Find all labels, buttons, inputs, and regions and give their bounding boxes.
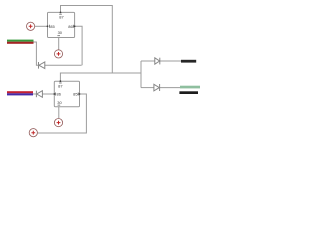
green output lead (from D4) — [180, 86, 200, 89]
svg-text:86: 86 — [57, 92, 62, 97]
pin tick 85 relay K1 — [48, 25, 50, 28]
diode D3 (points right) — [155, 58, 160, 65]
pin tick 30 relay K2 — [58, 104, 61, 106]
+12V terminal circle D (to K2 pin 85) — [29, 129, 37, 137]
pin tick 86 relay K2 — [55, 93, 57, 96]
wire 85 circle to relay K1 left pin — [35, 25, 48, 27]
wire diode D4 to green lead — [160, 87, 180, 89]
wire branch vertical node — [140, 61, 142, 88]
black output lead (below green) — [179, 91, 198, 94]
wire relay K2 pin 30 down to + terminal — [58, 107, 60, 119]
junction dot pin 87 relay K2 — [60, 80, 62, 82]
wire diode D1 to node at x82 — [45, 64, 82, 66]
svg-text:87: 87 — [59, 15, 64, 20]
wire relay K2 pin 87 feeder — [60, 73, 141, 81]
diode D2 (points left) — [36, 91, 42, 98]
pin tick 86 relay K1 — [72, 25, 74, 28]
blue/red wire lead (input to D2) — [7, 91, 33, 95]
junction dot pin 85 relay K1 — [47, 25, 49, 27]
svg-text:85: 85 — [73, 92, 78, 97]
wire green/red lead to diode D1 — [33, 42, 38, 65]
wire relay K2 pin 85 to bottom + terminal — [38, 94, 87, 133]
wire relay K1 pin 30 down to + terminal — [58, 38, 60, 50]
wire relay K1 pin 87 top route — [61, 6, 113, 74]
wire branch to diode D3 — [141, 60, 155, 62]
pin tick 30 relay K1 — [57, 35, 60, 37]
wire blue/red lead to diode D2 — [33, 93, 36, 95]
green/red wire lead (input to D1) — [7, 40, 34, 44]
black output lead (from D3) — [181, 60, 196, 63]
+12V terminal circle B (below K1 pin 30) — [54, 50, 62, 58]
wire diode D3 to black lead — [160, 60, 181, 62]
relay K1 — [48, 12, 75, 37]
junction dot pin 86 relay K2 — [53, 93, 55, 95]
wire diode D2 to relay K2 left pin — [42, 93, 54, 95]
svg-text:85: 85 — [50, 24, 55, 29]
diode D1 (points left) — [39, 62, 45, 69]
wire relay K1 pin 86 right route — [75, 26, 83, 65]
svg-text:86: 86 — [68, 24, 73, 29]
pin tick 85 relay K2 — [77, 93, 79, 96]
wire branch to diode D4 — [141, 87, 154, 89]
svg-text:30: 30 — [58, 30, 63, 35]
junction dot pin 86 relay K1 — [74, 25, 76, 27]
+12V terminal circle C (below K2 pin 30) — [54, 119, 62, 127]
pin tick 87 relay K2 — [59, 82, 62, 84]
pin tick 87 relay K1 — [59, 13, 62, 15]
junction dot pin 85 relay K2 — [79, 93, 81, 95]
svg-text:87: 87 — [58, 84, 63, 89]
+12V terminal circle A (to K1 pin 85) — [27, 22, 35, 30]
diode D4 (points right) — [154, 84, 160, 91]
svg-text:30: 30 — [57, 100, 62, 105]
relay K2 — [54, 81, 79, 107]
junction dot pin 87 relay K1 — [60, 12, 62, 14]
